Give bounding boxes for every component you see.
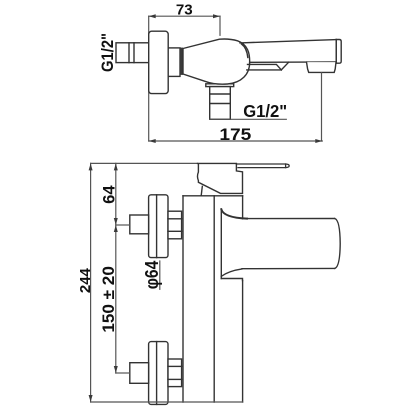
underside step diagonal bbox=[281, 62, 288, 70]
spout top fillet bbox=[221, 209, 247, 218]
flange disc 1 bbox=[149, 195, 168, 258]
inner highlight arc on ball bbox=[242, 44, 248, 58]
arrow left 175 bbox=[149, 139, 156, 143]
spout bottom fillet bbox=[221, 269, 242, 276]
tick at inlet 2 center bbox=[116, 372, 130, 374]
spout bottom edge bbox=[242, 267, 335, 269]
spout top edge bbox=[247, 218, 335, 220]
dimension 175 line bbox=[149, 140, 323, 142]
underside channel bottom bbox=[247, 69, 281, 71]
dimension 64 + 150±20 line bbox=[115, 163, 117, 373]
cover inner crease bbox=[201, 186, 202, 195]
faucet body (ball + cone) bbox=[183, 39, 250, 84]
spout end cap bbox=[336, 40, 341, 64]
threaded nipple G1/2 inlet bbox=[116, 43, 149, 63]
bottom extension line bbox=[91, 401, 243, 403]
svg-text:244: 244 bbox=[78, 268, 94, 293]
stub pipe 2 bbox=[130, 363, 149, 384]
thick connector edge bbox=[180, 48, 183, 75]
svg-text:G1/2": G1/2" bbox=[99, 33, 117, 72]
svg-text:G1/2": G1/2" bbox=[243, 101, 287, 121]
arrow left 73 bbox=[149, 14, 156, 18]
svg-text:64: 64 bbox=[99, 185, 118, 204]
svg-text:73: 73 bbox=[176, 2, 193, 19]
arrow right 73 bbox=[213, 14, 220, 18]
handle lever bbox=[236, 164, 289, 168]
stub pipe 1 bbox=[130, 215, 149, 234]
spout top edge bbox=[240, 40, 336, 43]
flange disc 2 bbox=[149, 342, 168, 405]
svg-text:175: 175 bbox=[219, 126, 251, 144]
arrows 150 dim bbox=[114, 225, 118, 232]
body rectangle bbox=[182, 196, 184, 402]
phi64 leader underline bbox=[159, 261, 161, 289]
collar under body bbox=[206, 84, 234, 87]
cartridge cover bbox=[198, 163, 243, 193]
connector cylinder bbox=[168, 48, 180, 77]
spout (front view) base edge bbox=[220, 209, 222, 278]
spout tip bbox=[335, 219, 340, 269]
aerator nozzle bbox=[307, 62, 337, 72]
wall flange (escutcheon, side) bbox=[149, 31, 169, 93]
shower outlet tube bbox=[210, 87, 231, 120]
dimension 244 line bbox=[90, 163, 92, 402]
hex nut 2 bbox=[168, 359, 182, 387]
arrow right 175 bbox=[315, 139, 322, 143]
wire: wall extension line x=148.7 bbox=[148, 16, 150, 141]
body inner line bbox=[213, 196, 215, 402]
dimension 73 line bbox=[149, 15, 220, 17]
underside channel lip bbox=[248, 64, 282, 70]
spout bottom lip bbox=[221, 279, 242, 281]
svg-text:φ64: φ64 bbox=[142, 261, 162, 290]
arrows 64 dim bbox=[114, 163, 118, 170]
tick at inlet 1 center bbox=[116, 224, 130, 226]
dimension 73 right extension bbox=[219, 16, 221, 35]
leader underline for G1/2 outlet label bbox=[210, 118, 287, 120]
spout bottom edge bbox=[250, 61, 337, 63]
175 right extension from aerator bbox=[321, 73, 323, 141]
svg-text:150 ± 20: 150 ± 20 bbox=[100, 266, 118, 333]
top extension line bbox=[91, 162, 198, 164]
hex nut 1 bbox=[168, 211, 182, 239]
